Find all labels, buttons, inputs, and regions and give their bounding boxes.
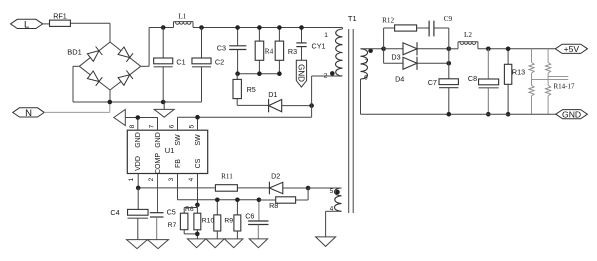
junction [257,71,262,76]
svg-text:GND: GND [562,109,581,119]
resistor R11 [215,185,237,192]
svg-text:R12: R12 [382,17,394,25]
svg-text:D2: D2 [271,171,280,180]
ground [206,239,224,248]
svg-text:L2: L2 [464,31,472,39]
svg-text:+5V: +5V [564,44,580,54]
wire [237,187,269,189]
ground [148,240,169,249]
junction [235,25,240,30]
svg-text:N: N [25,108,32,119]
svg-text:BD1: BD1 [67,48,82,57]
svg-text:GND: GND [296,64,305,82]
svg-text:R10: R10 [202,217,215,224]
resistor network R14-17 column B [547,49,549,63]
wire: +5V rail [449,48,458,50]
capacitor C1 [162,28,164,59]
junction [161,100,166,105]
junction [108,100,113,105]
junction [506,47,511,52]
capacitor CY1 [301,28,303,43]
junction [161,25,166,30]
svg-text:2: 2 [148,177,155,181]
svg-text:R11: R11 [221,172,233,180]
svg-text:GND: GND [155,132,162,148]
wire: FB row [178,199,259,201]
junction [306,186,311,191]
svg-text:R3: R3 [288,47,297,56]
svg-text:C8: C8 [468,74,477,83]
svg-text:CY1: CY1 [312,42,326,51]
wire [44,111,110,113]
junction CS node [195,203,200,208]
capacitor C7 [448,63,450,79]
svg-text:4: 4 [188,177,195,181]
wire [109,90,111,102]
bridge diode top-right [118,47,130,58]
svg-text:L1: L1 [178,13,186,21]
bridge diode bottom-left [87,71,99,82]
junction [299,25,304,30]
polarity dot [330,71,335,76]
pin 4 [197,174,199,205]
svg-text:1: 1 [324,32,328,39]
capacitor C6 [258,200,260,221]
capacitor C5 [150,212,164,214]
junction [215,198,220,203]
resistor R12 [383,28,385,49]
junction [486,47,491,52]
junction [506,112,511,117]
wire [311,106,313,118]
wire: snubber node [238,73,280,75]
net label L [11,19,43,28]
wire [141,65,149,67]
inductor L1 [173,22,175,28]
wire [361,48,384,50]
wire: rectified rail [149,27,173,29]
junction [235,198,240,203]
wire: primary ground rail [73,101,202,103]
wire: VDD row [138,187,215,189]
capacitor C3 [237,28,239,46]
svg-text:R7: R7 [168,222,177,229]
junction [447,61,452,66]
junction [195,115,200,120]
bridge rectifier BD1 outline [79,42,110,66]
svg-text:GND: GND [135,132,142,148]
svg-text:D1: D1 [268,90,277,99]
svg-text:C6: C6 [245,211,254,220]
svg-text:R8: R8 [269,201,278,210]
net label GND (CY1) [296,60,306,87]
capacitor C2 [201,28,203,59]
pin 1 [137,174,139,188]
resistor R6 [196,205,198,213]
wire: SW net [178,116,312,118]
net label +5V [555,44,587,53]
wire [73,65,79,67]
svg-text:SW: SW [175,134,182,146]
svg-text:7: 7 [149,124,156,128]
ground [249,239,267,248]
wire [360,79,362,114]
ground [127,240,148,249]
svg-text:RF1: RF1 [53,11,67,20]
capacitor C4 [137,188,139,210]
svg-text:FB: FB [175,159,182,168]
T1 aux winding (pins 5-4) [334,188,341,211]
svg-text:R13: R13 [512,68,525,77]
resistor R7 [183,208,185,214]
junction [195,232,200,237]
pin 5 [197,117,199,130]
svg-text:VDD: VDD [135,156,142,171]
resistor R10 [216,200,218,215]
junction [277,25,282,30]
svg-text:6: 6 [169,124,176,128]
svg-text:R9: R9 [224,217,233,224]
svg-text:3: 3 [168,177,175,181]
junction [257,25,262,30]
ground [187,239,205,248]
diode D1 [237,104,268,106]
svg-text:C1: C1 [176,58,185,67]
pin 6 [177,117,179,130]
polarity dot [335,190,340,195]
wire [448,49,450,64]
resistor R4 [258,28,260,42]
pin 2 [157,174,159,213]
svg-text:D4: D4 [395,75,404,84]
svg-text:CS: CS [195,158,202,168]
svg-text:5: 5 [189,124,196,128]
bridge diode bottom-right [118,75,130,86]
svg-text:C9: C9 [444,15,453,23]
svg-text:T1: T1 [348,14,357,23]
svg-text:7: 7 [365,59,369,66]
arrow to N rail [114,110,126,126]
op-amp U1 body [127,130,207,173]
resistor R13 [507,49,509,65]
junction [309,103,314,108]
svg-text:R14-17: R14-17 [554,83,576,91]
pin 7 [157,117,159,130]
ground [316,237,336,247]
svg-text:L: L [24,19,29,30]
svg-text:C4: C4 [110,208,119,217]
junction [447,47,452,52]
wire [308,187,341,189]
svg-text:C3: C3 [217,43,226,52]
svg-text:6: 6 [364,75,368,82]
junction [486,112,491,117]
junction [447,112,452,117]
svg-text:COMP: COMP [155,153,162,174]
diode D2 [269,182,282,193]
R14-17 taps [548,76,568,78]
wire [43,23,50,25]
junction [136,186,141,191]
T1 primary winding (pins 1-2) [335,29,342,76]
svg-text:R5: R5 [247,85,256,94]
junction [381,47,386,52]
junction [199,25,204,30]
diode D4 [383,49,385,64]
svg-text:1: 1 [128,177,135,181]
resistor R5 [236,74,238,80]
junction [235,71,240,76]
diode D3 [384,48,403,50]
junction [277,71,282,76]
capacitor C8 [487,49,489,79]
svg-text:5: 5 [330,188,334,195]
resistor R3 [278,28,280,42]
T1 secondary winding (pins 7-6) [361,49,368,79]
svg-text:C2: C2 [215,58,224,67]
wire [311,76,313,106]
svg-text:R4: R4 [265,47,274,55]
resistor R8 [307,188,309,200]
svg-text:SW: SW [195,134,202,146]
inductor L2 [457,42,459,49]
junction [136,115,141,120]
wire: secondary ground rail [361,113,556,115]
pin 8 [137,117,139,130]
resistor RF1 [50,20,71,26]
ground arrow [163,102,165,109]
svg-text:C5: C5 [167,208,176,217]
wire [283,187,308,189]
svg-text:C7: C7 [428,78,437,87]
wire [326,210,342,212]
junction [257,198,262,203]
net label N [13,108,45,117]
T1 core [348,29,350,213]
svg-text:U1: U1 [165,146,175,155]
svg-text:8: 8 [129,124,136,128]
bridge diode top-left [87,51,99,62]
svg-text:2: 2 [324,72,328,79]
capacitor C9 [428,21,430,37]
svg-text:D3: D3 [391,53,400,62]
wire [70,22,110,24]
resistor R9 [236,200,238,215]
pin 3 [177,174,179,200]
wire [282,105,312,107]
net label GND [556,110,588,119]
ground [225,239,243,248]
resistor network R14-17 column A [531,49,533,63]
polarity dot [368,48,373,53]
